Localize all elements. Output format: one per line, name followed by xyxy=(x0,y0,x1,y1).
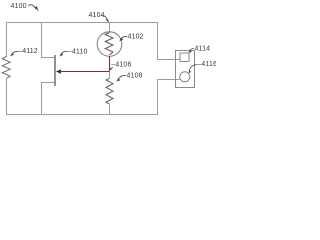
wire gate net (red) xyxy=(60,71,110,73)
bolometer 4102 zigzag xyxy=(105,32,113,55)
bolometer 4102 circle xyxy=(97,32,122,57)
svg-text:–4110: –4110 xyxy=(68,48,88,55)
resistor 4108 xyxy=(106,78,113,104)
label 4102 arrow xyxy=(120,36,127,40)
resistor 4112 xyxy=(2,57,10,79)
label 4106 arrow xyxy=(110,67,113,69)
transistor 4110 channel bar xyxy=(54,55,56,86)
wire bolometer bottom lead (red net) xyxy=(109,56,111,72)
wire left rail upper xyxy=(6,22,8,57)
box 4114 outer xyxy=(176,51,195,88)
wire right upper branch to box xyxy=(158,22,181,60)
svg-text:4114: 4114 xyxy=(195,46,211,53)
label 4110 arrow xyxy=(61,51,68,54)
wire left rail lower xyxy=(6,79,8,116)
svg-text:4102: 4102 xyxy=(128,34,144,41)
svg-text:4100: 4100 xyxy=(11,3,27,10)
transistor 4110 drain lead xyxy=(42,22,55,58)
label 4108 arrow xyxy=(118,75,127,80)
transistor 4110 source lead xyxy=(42,83,55,116)
svg-text:4108: 4108 xyxy=(127,73,143,80)
resistor 4108 bottom stub xyxy=(109,104,111,115)
wire bolometer top lead xyxy=(109,22,111,32)
transistor 4110 gate arrowhead xyxy=(56,69,61,74)
svg-text:–4112: –4112 xyxy=(18,48,38,55)
label 4104 tail xyxy=(102,16,108,20)
pad square 4114 xyxy=(180,53,189,62)
wire bottom rail xyxy=(6,114,158,116)
wire top rail 4104 xyxy=(6,22,158,24)
pad circle 4116 xyxy=(180,72,190,82)
label 4112 arrow xyxy=(12,51,18,54)
node 4106 to resistor stub xyxy=(109,72,111,79)
wire right lower branch to box xyxy=(158,80,182,116)
svg-text:–4116: –4116 xyxy=(197,61,216,68)
label 4116 arrow xyxy=(189,65,197,72)
label 4114 arrow xyxy=(189,48,194,51)
label 4100 arrow xyxy=(28,5,36,9)
svg-text:–4106: –4106 xyxy=(111,62,131,69)
